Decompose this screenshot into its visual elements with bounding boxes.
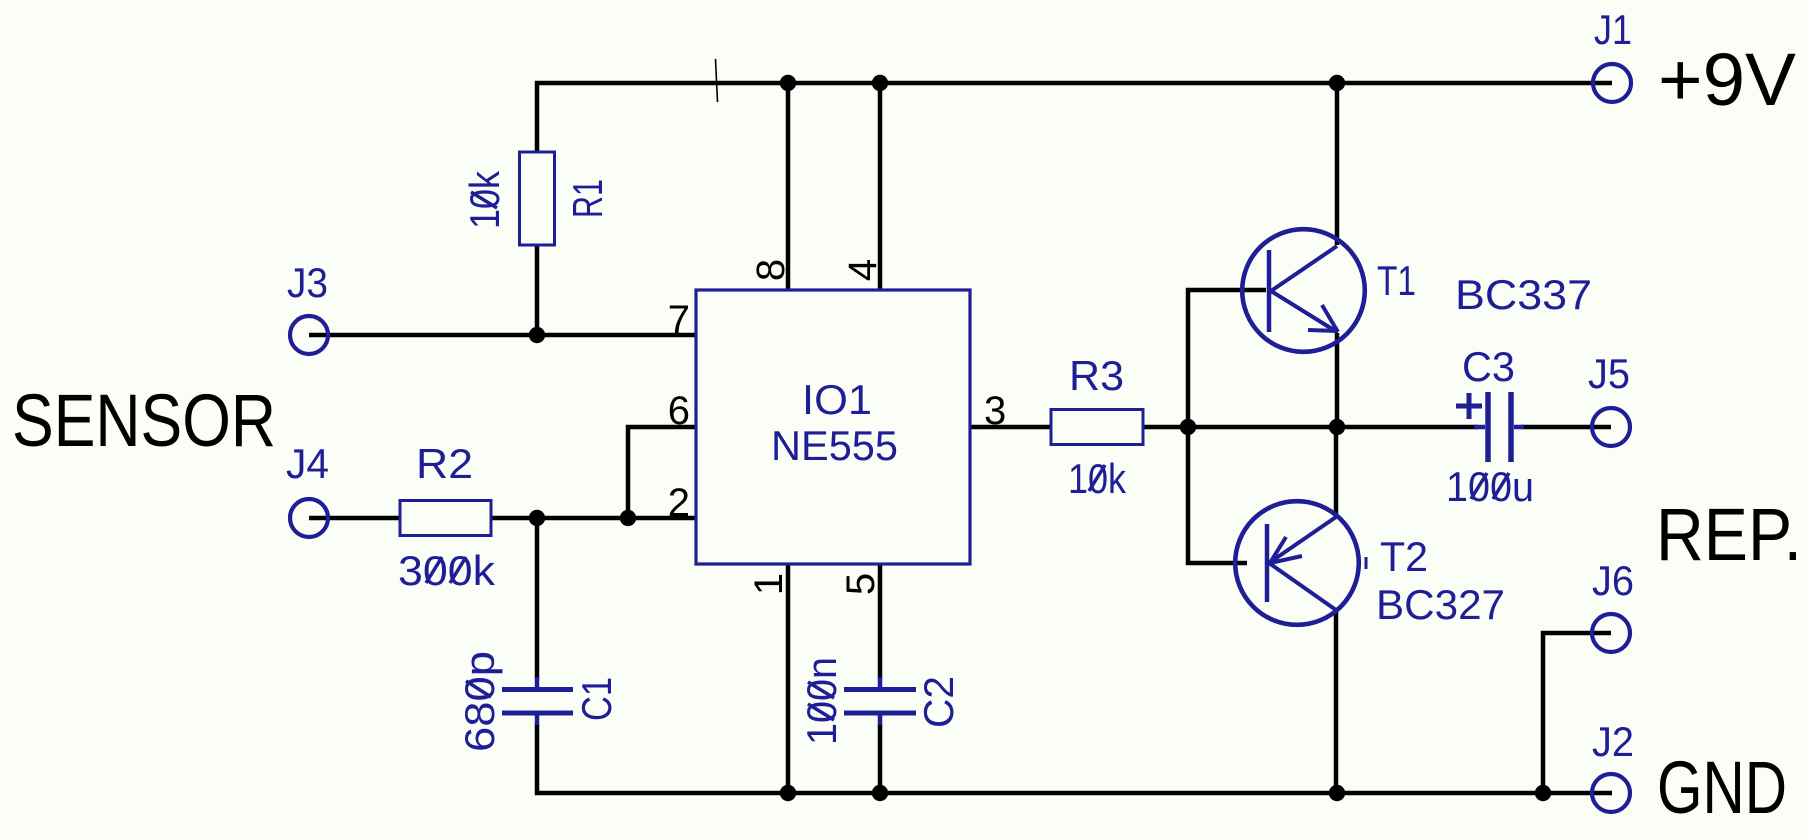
wire top +9V bus with R1 drop xyxy=(537,83,1612,152)
capacitor C2 plates xyxy=(844,677,916,725)
junction R2/C1 xyxy=(529,510,545,526)
junction pin1/bottom bus xyxy=(780,785,796,801)
transistor Q2 T2 BC327 xyxy=(1235,501,1359,625)
wire C1 bottom joining GND bus xyxy=(537,724,1612,793)
svg-text:C3: C3 xyxy=(1462,343,1515,390)
junction J6/bottom bus xyxy=(1535,785,1551,801)
value label 100u of C3 xyxy=(1446,463,1534,510)
wire pin 8 to top bus xyxy=(786,83,791,290)
junction pin6/pin2 xyxy=(620,510,636,526)
junction T2 collector/bottom bus xyxy=(1329,785,1345,801)
junction T1 collector/top bus xyxy=(1329,75,1345,91)
resistor R1 xyxy=(520,152,555,245)
wire base bus with T1 and T2 base stubs xyxy=(1188,290,1266,563)
svg-text:5: 5 xyxy=(839,573,883,595)
value label 680p of C1 (rotated) xyxy=(456,651,503,752)
junction C2/bottom bus xyxy=(872,785,888,801)
capacitor C1 plates xyxy=(502,677,573,725)
value label 10k of R1 (rotated) xyxy=(461,170,508,229)
wire C2 bottom xyxy=(878,724,883,793)
wire R2 to pin 2 xyxy=(491,516,696,521)
wire pin 4 to top bus xyxy=(878,83,883,290)
wire J4 to R2 xyxy=(309,516,400,521)
svg-text:680p: 680p xyxy=(456,651,503,752)
capacitor C3 plates polarized xyxy=(1456,392,1524,462)
value label 100n of C2 (rotated) xyxy=(798,657,845,745)
resistor R2 xyxy=(400,501,491,536)
wire pin 3 to R3 xyxy=(970,425,1051,430)
wire tick mark on top bus xyxy=(716,59,718,102)
svg-text:6: 6 xyxy=(668,389,690,433)
svg-text:300k: 300k xyxy=(398,547,496,594)
svg-text:R2: R2 xyxy=(416,440,473,487)
connector J3 pad xyxy=(290,316,328,354)
wire R1 bottom to pin7 net xyxy=(535,245,540,335)
junction emitters/C3 xyxy=(1329,419,1345,435)
connector J5 pad xyxy=(1592,408,1630,446)
wire T1 emitter down xyxy=(1335,333,1340,427)
value label 300k of R2 xyxy=(398,547,496,594)
wire pin 5 to C2 xyxy=(878,564,883,679)
connector J4 pad xyxy=(290,499,328,537)
wire pin 1 to bottom bus xyxy=(786,564,791,793)
stray tick near T2 xyxy=(1365,557,1368,569)
wire T1 collector to top bus xyxy=(1335,83,1340,245)
svg-text:100u: 100u xyxy=(1446,463,1534,510)
svg-text:J6: J6 xyxy=(1592,557,1634,604)
svg-text:SENSOR: SENSOR xyxy=(12,379,276,462)
junction pin8/top bus xyxy=(780,75,796,91)
wire T2 collector down xyxy=(1334,611,1339,793)
wire C3 to J5 xyxy=(1521,425,1611,430)
junction R1/pin7 xyxy=(529,327,545,343)
svg-text:J4: J4 xyxy=(286,440,329,487)
svg-text:BC337: BC337 xyxy=(1455,271,1592,318)
wire R3 to C3 xyxy=(1143,425,1478,430)
wire J6 branch xyxy=(1543,633,1611,793)
svg-text:R1: R1 xyxy=(564,179,611,218)
svg-text:+9V: +9V xyxy=(1658,38,1797,121)
svg-text:NE555: NE555 xyxy=(771,422,898,469)
svg-text:IO1: IO1 xyxy=(802,376,872,423)
connector J6 pad xyxy=(1592,614,1630,652)
svg-text:2: 2 xyxy=(668,481,690,525)
value label 10k of R3 xyxy=(1068,455,1127,502)
svg-text:7: 7 xyxy=(668,298,690,342)
svg-text:4: 4 xyxy=(841,259,885,281)
svg-text:J5: J5 xyxy=(1588,350,1630,397)
op-amp U1 IC IO1 NE555 box xyxy=(696,290,970,564)
svg-text:J1: J1 xyxy=(1594,6,1632,53)
svg-text:100n: 100n xyxy=(798,657,845,745)
svg-text:REP.: REP. xyxy=(1656,493,1802,576)
svg-text:8: 8 xyxy=(749,259,793,281)
svg-text:C2: C2 xyxy=(915,676,962,728)
svg-text:1: 1 xyxy=(747,573,791,595)
connector J2 pad xyxy=(1592,774,1630,812)
wire T2 emitter up xyxy=(1334,427,1339,516)
wire J3 to pin 7 xyxy=(309,333,696,338)
resistor R3 xyxy=(1051,410,1143,445)
svg-text:R3: R3 xyxy=(1069,352,1124,399)
svg-text:C1: C1 xyxy=(573,677,620,721)
wire C1 top xyxy=(535,518,540,679)
junction pin4/top bus xyxy=(872,75,888,91)
junction R3/base bus xyxy=(1180,419,1196,435)
svg-text:T1: T1 xyxy=(1377,257,1416,304)
svg-text:GND: GND xyxy=(1657,746,1787,829)
svg-text:T2: T2 xyxy=(1380,533,1428,580)
svg-text:J3: J3 xyxy=(287,259,328,306)
svg-text:J2: J2 xyxy=(1592,718,1634,765)
svg-text:3: 3 xyxy=(984,389,1006,433)
transistor Q1 T1 BC337 xyxy=(1242,229,1365,352)
wire pin 6 stub and drop to pin 2 net xyxy=(628,427,696,518)
connector J1 pad xyxy=(1593,64,1631,102)
svg-text:BC327: BC327 xyxy=(1376,581,1505,628)
